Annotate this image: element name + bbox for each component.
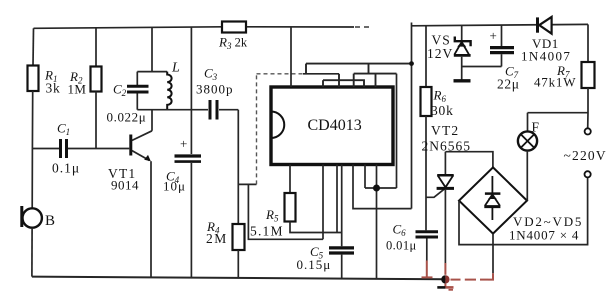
wire H1 drop at 306 (305, 64, 307, 74)
wire IC pin14 from rail (290, 27, 292, 87)
terminal ~220V bottom (585, 171, 591, 177)
capacitor C2 (136, 72, 138, 85)
svg-text:R3 2k: R3 2k (218, 35, 248, 52)
wire bridge bottom down (492, 234, 494, 274)
svg-text:2M: 2M (206, 231, 228, 246)
wire R6 to gate node and C6 (425, 116, 427, 230)
wire lamp to bridge right (526, 151, 528, 201)
ground symbol at junction (437, 286, 445, 289)
resistor R6 (425, 26, 427, 87)
svg-text:R6: R6 (433, 88, 447, 105)
wire R5 bottom (290, 222, 342, 233)
capacitor C4 (190, 27, 192, 154)
wire H2b leg 375 (375, 74, 377, 87)
wire lamp branch (528, 112, 589, 114)
wire emitter down (150, 161, 152, 277)
IC U1 CD4013 (271, 87, 393, 165)
wire ground bus under IC (365, 187, 397, 189)
svg-text:1N4007 × 4: 1N4007 × 4 (509, 228, 579, 243)
svg-text:1M: 1M (68, 82, 87, 97)
wire R7 to lamp node (587, 88, 589, 128)
wire R2 to base (95, 92, 97, 149)
svg-text:+: + (490, 28, 497, 43)
svg-text:9014: 9014 (111, 178, 139, 193)
svg-text:C6: C6 (393, 222, 407, 239)
wire H2b leg 353 (353, 74, 355, 87)
wire faint loop horizontal solid part (303, 73, 339, 75)
resistor R3 (222, 22, 246, 33)
wire H1 top (306, 63, 412, 65)
wire bottom rail (32, 277, 446, 280)
svg-text:0.022μ: 0.022μ (107, 110, 147, 125)
svg-text:0.1μ: 0.1μ (52, 161, 80, 176)
inductor L (167, 72, 171, 110)
svg-text:0.15μ: 0.15μ (297, 257, 332, 272)
microphone B (23, 208, 42, 227)
svg-text:22μ: 22μ (497, 77, 520, 92)
node junction dot x411 (409, 61, 414, 66)
wire faint loop vertical (256, 74, 258, 185)
wire top bus H3 (323, 80, 364, 87)
svg-text:30k: 30k (431, 103, 454, 118)
thyristor VT2 (444, 152, 446, 175)
wire VT2 cathode (444, 190, 446, 263)
wire right loop down to ground node (396, 74, 398, 188)
wire pin stub 339 (338, 74, 340, 87)
diode VD1 (536, 17, 539, 32)
capacitor C3 (209, 100, 212, 120)
wire bus leg 323 (322, 80, 324, 87)
wire IC ground to bottom rail (376, 165, 378, 279)
resistor R7 (587, 24, 589, 62)
wire R4 node to input loop (238, 183, 256, 185)
node main ground dot (441, 275, 445, 283)
wire gate lead (426, 189, 445, 198)
svg-text:VT2: VT2 (431, 123, 459, 138)
wire tank bottom / C3 wire (137, 109, 208, 111)
svg-text:B: B (45, 213, 55, 229)
wire left rail (32, 28, 35, 65)
wire bridge left corner to AC terminal (459, 177, 588, 244)
svg-text:C2: C2 (113, 82, 127, 99)
svg-text:0.01μ: 0.01μ (386, 239, 417, 253)
svg-text:47k1W: 47k1W (534, 75, 576, 90)
svg-text:10μ: 10μ (163, 179, 186, 194)
wire VT2 anode to bridge top (445, 152, 493, 168)
zener diode VS (461, 26, 463, 40)
transistor VT1 (129, 135, 132, 156)
wire faint loop horizontal dashed part (257, 73, 304, 75)
wire input branch to IC bottom (248, 184, 323, 239)
wire left rail bottom (31, 228, 33, 277)
svg-text:5.1M: 5.1M (250, 224, 284, 239)
wire tank feed (151, 27, 153, 72)
wire C1 to base (68, 148, 129, 150)
svg-text:C3: C3 (204, 66, 218, 83)
svg-text:3k: 3k (46, 81, 61, 96)
bridge rectifier VD2~VD5 (459, 167, 527, 233)
resistor R4 (237, 110, 239, 224)
ground VS (454, 79, 471, 82)
wire R4 to bottom rail (237, 250, 239, 278)
capacitor C5 (341, 165, 343, 247)
svg-text:3800p: 3800p (196, 82, 234, 97)
capacitor C1 (32, 148, 59, 150)
wire C3 to R4 node (219, 109, 238, 111)
svg-text:L: L (171, 61, 180, 76)
svg-text:~220V: ~220V (564, 148, 607, 163)
red highlight ground trace (422, 261, 494, 290)
svg-text:C1: C1 (57, 121, 70, 138)
svg-text:R5: R5 (265, 207, 279, 224)
lamp F (527, 113, 529, 132)
wire collector up (151, 110, 153, 131)
wire H2b (354, 73, 397, 75)
svg-text:CD4013: CD4013 (308, 117, 362, 134)
wire IC pin to 239 (322, 165, 324, 240)
resistor R5 (289, 165, 291, 194)
wire top rail left segment (34, 27, 223, 29)
wire H1 to H2b drop (368, 64, 370, 74)
node ground junction dot (373, 185, 380, 192)
svg-text:+: + (180, 136, 187, 151)
wire left rail below R1 (31, 91, 34, 208)
resistor R1 (28, 66, 39, 92)
capacitor C6 (416, 230, 439, 233)
resistor R2 (95, 27, 97, 67)
capacitor C7 (501, 26, 503, 47)
wire top rail faint dashed segment (355, 26, 371, 28)
svg-text:12V: 12V (427, 46, 453, 61)
svg-text:F: F (532, 120, 540, 135)
wire tank top bar (137, 71, 167, 73)
wire C7 bottom to zener (462, 66, 502, 68)
wire IC pin 353 to supply loop (353, 165, 412, 209)
wire top rail mid segment (246, 26, 354, 28)
svg-text:1N4007: 1N4007 (521, 49, 571, 64)
wire top rail right segment (412, 24, 589, 25)
wire vertical supply loop x411 (411, 23, 413, 209)
wire IC pin to 232 (336, 165, 338, 233)
wire IC pin 365 (364, 165, 366, 189)
terminal ~220V top (585, 128, 591, 134)
